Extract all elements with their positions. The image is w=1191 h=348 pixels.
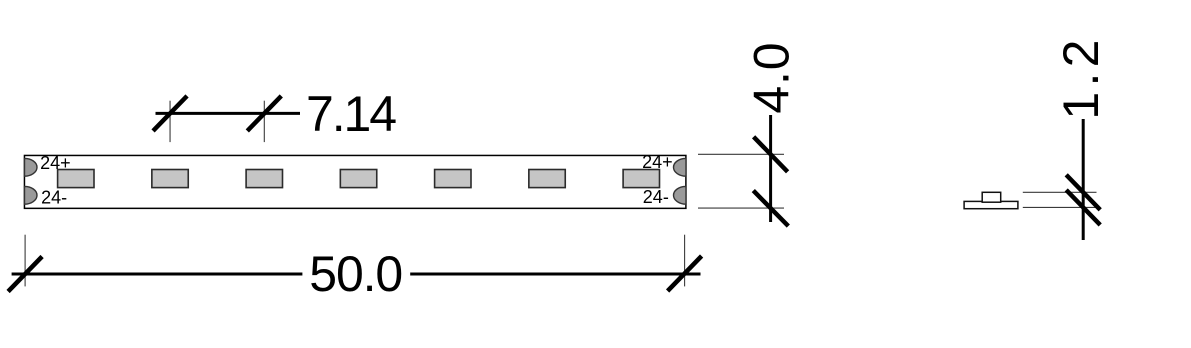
PCB side view <box>964 201 1018 208</box>
svg-text:4.0: 4.0 <box>744 42 800 113</box>
solder pad 24- right <box>674 186 687 204</box>
svg-text:24+: 24+ <box>40 153 71 173</box>
LED D4 <box>340 170 376 188</box>
svg-text:24+: 24+ <box>642 152 673 172</box>
LED strip body outline <box>24 155 685 208</box>
extension line thickness top <box>1023 191 1097 193</box>
solder pad 24- left <box>25 186 38 204</box>
extension line length left <box>24 235 26 287</box>
LED component side view <box>982 192 1001 202</box>
extension line width top <box>698 153 784 155</box>
svg-text:50.0: 50.0 <box>309 246 403 302</box>
dimension line 50.0 right segment <box>410 273 700 276</box>
svg-text:24-: 24- <box>41 188 67 208</box>
LED D5 <box>435 170 471 188</box>
dimension line 50.0 left segment <box>12 273 303 276</box>
tick slash length left <box>8 257 42 292</box>
extension line pitch left <box>169 101 171 142</box>
solder pad 24+ left <box>25 158 38 176</box>
dimension line 7.14 <box>156 112 301 115</box>
tick slash width bottom <box>753 191 788 227</box>
LED D6 <box>529 170 565 188</box>
tick slash thickness top <box>1066 175 1100 210</box>
svg-text:24-: 24- <box>643 187 669 207</box>
svg-text:1.2: 1.2 <box>1053 40 1109 120</box>
extension line pitch right <box>263 101 265 142</box>
LED D7 <box>623 170 659 188</box>
LED D3 <box>246 170 282 188</box>
LED D1 <box>58 170 94 188</box>
tick slash pitch left <box>153 96 187 131</box>
tick slash width top <box>754 137 788 172</box>
svg-text:7.14: 7.14 <box>306 86 397 142</box>
dimension line 1.2 <box>1082 119 1085 240</box>
solder pad 24+ right <box>674 158 687 176</box>
tick slash length right <box>668 256 702 291</box>
tick slash pitch right <box>247 96 281 131</box>
extension line thickness bottom <box>1023 206 1097 208</box>
extension line length right <box>684 235 686 287</box>
LED D2 <box>152 170 188 188</box>
extension line width bottom <box>698 207 784 209</box>
dimension line 4.0 <box>769 115 772 222</box>
tick slash thickness bottom <box>1066 190 1100 225</box>
